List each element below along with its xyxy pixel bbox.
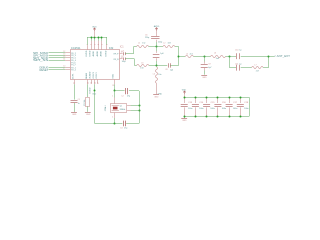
svg-text:1: 1 — [87, 44, 89, 45]
svg-text:L7: L7 — [254, 64, 256, 66]
wire RF_P to riser — [125, 47, 133, 54]
junction bank bottom C14 — [195, 116, 197, 118]
IC pin GUARD (bottom stub) — [89, 71, 93, 93]
wire net RESET — [49, 69, 66, 71]
net label XOSC_Q2 — [92, 94, 96, 96]
svg-text:AVDD: AVDD — [92, 50, 95, 56]
junction RF output node — [178, 56, 180, 58]
svg-text:L2: L2 — [163, 43, 165, 45]
svg-text:SPI_SS: SPI_SS — [33, 59, 49, 62]
svg-text:100n: 100n — [199, 108, 203, 110]
wire L1 to node A — [149, 46, 157, 48]
supply VDD (bank) — [182, 90, 187, 98]
wire node D drop — [230, 56, 237, 67]
wire combiner riser — [178, 47, 180, 66]
capacitor C11 (antenna bottom) — [235, 64, 242, 71]
junction case pin lower — [139, 110, 141, 112]
junction bus x=98.2 — [98, 37, 100, 39]
IC pin P1_7 (left, unconnected) — [71, 65, 75, 67]
svg-text:Q1: Q1 — [120, 105, 123, 107]
svg-text:21: 21 — [74, 82, 76, 84]
svg-text:C3: C3 — [120, 128, 122, 130]
supply VDD (above IC) — [92, 27, 97, 38]
svg-text:2: 2 — [112, 116, 113, 118]
wire net SPI_MISO — [49, 52, 66, 54]
svg-text:5: 5 — [102, 44, 104, 45]
svg-text:VDD: VDD — [92, 27, 97, 29]
wire bus drop x=94.6 — [94, 37, 96, 41]
svg-text:RF_N: RF_N — [114, 59, 120, 61]
wire node C down to C9 — [204, 56, 206, 64]
svg-text:XOSC2: XOSC2 — [93, 71, 95, 79]
wire RBIAS — [87, 84, 89, 97]
crystal Q1 26MHz — [104, 104, 127, 113]
IC U1 value label CC2511 — [71, 46, 81, 50]
svg-text:GND: GND — [182, 120, 187, 122]
wire bus drop x=91.0 — [91, 37, 93, 41]
junction bank bottom C13 — [184, 116, 186, 118]
junction bus x=91.0 — [91, 37, 93, 39]
net label SPI_SCK — [33, 57, 49, 60]
capacitor C10 (antenna top) — [235, 50, 242, 60]
wire to capacitor C3 — [114, 123, 122, 125]
svg-text:100n: 100n — [244, 108, 248, 110]
junction node A — [156, 46, 158, 48]
svg-text:6: 6 — [107, 44, 109, 45]
svg-text:DVDD: DVDD — [86, 50, 88, 56]
svg-text:100n: 100n — [222, 108, 226, 110]
wire VDD bus — [87, 37, 107, 39]
wire RF_N to drop — [125, 59, 134, 66]
junction bus x=94.6 — [94, 37, 96, 39]
junction case pin upper — [139, 105, 141, 107]
wire L5 to node C — [194, 56, 205, 58]
svg-text:1p0: 1p0 — [170, 69, 173, 71]
svg-text:100n: 100n — [210, 108, 214, 110]
IC pin AVDD (top) — [92, 41, 96, 57]
svg-text:P1_7: P1_7 — [71, 65, 75, 67]
ground (below C1) — [71, 113, 77, 117]
svg-text:GND: GND — [86, 114, 91, 116]
svg-text:2n7: 2n7 — [256, 71, 259, 73]
capacitor C2 27p — [121, 88, 130, 98]
junction node C — [204, 56, 206, 58]
net label SPI_SS — [33, 59, 49, 62]
ground (below L4) — [153, 95, 159, 99]
svg-text:CC2511: CC2511 — [71, 46, 81, 50]
inductor L3 1n8 — [137, 63, 149, 70]
junction crystal bottom / C3 — [114, 123, 116, 125]
net label SPI_MISO — [33, 52, 48, 55]
junction node B — [156, 65, 158, 67]
inductor L1 1n2 — [137, 43, 149, 48]
wire C11 to L7 — [241, 67, 252, 69]
IC U1 package label — [109, 47, 114, 50]
net label RESET — [40, 69, 49, 72]
svg-text:C9: C9 — [208, 64, 210, 66]
svg-text:VDD: VDD — [182, 90, 187, 92]
svg-text:AVDD: AVDD — [154, 25, 160, 28]
wire node D to C10 — [230, 56, 237, 58]
resistor R1 56k — [84, 98, 90, 112]
svg-text:27p: 27p — [124, 128, 127, 130]
junction bank top C18 — [240, 97, 242, 99]
wire L7 up to antenna node — [263, 56, 268, 67]
svg-text:1u: 1u — [78, 103, 80, 105]
IC pin P2_1 (left) — [63, 66, 76, 70]
IC pin P0_4 (left) — [63, 58, 76, 62]
wire net DEBUG — [49, 67, 66, 69]
svg-text:2: 2 — [91, 44, 93, 45]
svg-text:GND: GND — [154, 97, 159, 99]
svg-text:27p: 27p — [127, 96, 130, 98]
wire node A right — [156, 46, 163, 48]
IC U1 CC2511 body — [71, 50, 120, 80]
svg-text:1p: 1p — [239, 50, 241, 52]
wire VDD rail (bank top) — [184, 97, 249, 99]
svg-text:L6: L6 — [214, 53, 216, 55]
wire L3 to node B — [149, 65, 156, 67]
junction XTAL / C2 — [114, 90, 116, 92]
svg-text:10n: 10n — [158, 74, 161, 76]
inductor L5 2n2 — [185, 53, 193, 57]
capacitor C7 1p8 (bridge) — [153, 53, 164, 58]
wire bus drop x=101.8 — [101, 37, 103, 41]
junction bank bottom C18 — [240, 116, 242, 118]
wire output to L5 — [179, 56, 186, 58]
wire L6 to node D — [225, 56, 229, 58]
svg-text:100n: 100n — [233, 108, 237, 110]
svg-text:3: 3 — [94, 44, 96, 45]
svg-text:3n3: 3n3 — [216, 58, 219, 60]
svg-text:2n2: 2n2 — [190, 53, 193, 55]
junction node D — [229, 56, 231, 58]
svg-text:1p8: 1p8 — [160, 53, 163, 55]
svg-text:AVDD: AVDD — [96, 50, 99, 56]
wire bank right end — [249, 97, 251, 116]
capacitor C3 27p — [120, 121, 127, 130]
inductor L4 10n (shunt to ground) — [153, 67, 163, 96]
IC pin AVDD (top) — [96, 41, 100, 57]
capacitor C8 (balun out) — [165, 63, 173, 71]
capacitor C16 100n — [214, 97, 226, 116]
svg-text:F32: F32 — [109, 47, 114, 50]
wire bus drop x=87.5 — [87, 37, 89, 45]
svg-text:26MHz: 26MHz — [120, 109, 126, 111]
wire DCOUPL — [74, 84, 76, 99]
IC pin XTAL (bottom) — [112, 73, 115, 87]
svg-text:C4: C4 — [122, 51, 124, 53]
wire L2 to combiner riser — [175, 46, 179, 48]
svg-text:RF_P: RF_P — [114, 54, 120, 56]
IC pin AVDD (top) — [99, 41, 103, 57]
svg-text:C1: C1 — [78, 99, 80, 101]
svg-text:220p: 220p — [145, 37, 149, 39]
svg-text:C8: C8 — [165, 69, 167, 71]
junction bus x=101.8 — [101, 37, 103, 39]
capacitor C17 100n — [226, 97, 238, 116]
wire bus drop x=106.9 — [106, 37, 108, 45]
svg-text:4: 4 — [98, 44, 100, 45]
svg-text:RBIAS: RBIAS — [85, 72, 88, 79]
svg-text:DGND: DGND — [90, 87, 92, 93]
svg-text:C6: C6 — [145, 35, 147, 37]
wire XTAL to crystal top — [112, 91, 114, 104]
wire bus drop x=98.2 — [98, 37, 100, 41]
svg-text:100p: 100p — [122, 61, 126, 63]
junction antenna node — [268, 56, 270, 58]
IC pin DCOUPL (bottom) — [72, 73, 75, 85]
wire crystal ground net (right vertical) — [139, 91, 141, 124]
junction bank top C17 — [229, 97, 231, 99]
wire net SPI_SCK — [49, 57, 66, 59]
IC pin P0_2 (left) — [63, 51, 76, 55]
svg-text:26: 26 — [112, 85, 114, 87]
wire C6 up to AVDD — [156, 31, 158, 37]
IC U1 name label IC1 — [120, 46, 125, 49]
svg-text:GUARD: GUARD — [89, 71, 92, 79]
svg-text:ANT_EXT: ANT_EXT — [277, 54, 291, 58]
svg-text:AVDD: AVDD — [99, 50, 102, 56]
junction bank top C13 — [184, 97, 186, 99]
svg-text:RESET: RESET — [40, 69, 49, 72]
junction bank bottom C15 — [206, 116, 208, 118]
net label ANTENNA — [274, 54, 290, 58]
wire C10 to antenna node — [241, 56, 269, 58]
wire net SPI_SS — [49, 60, 66, 62]
crystal Q1 bottom pin — [112, 113, 114, 124]
svg-text:C5: C5 — [122, 56, 124, 58]
crystal Q1 case pin lower — [127, 110, 139, 112]
junction bank top C14 — [195, 97, 197, 99]
capacitor C9 4p7 (shunt) — [201, 64, 212, 70]
IC pin DVDD (top) — [90, 41, 93, 57]
wire node B right — [156, 65, 167, 67]
svg-text:9: 9 — [63, 68, 64, 70]
svg-text:IC1: IC1 — [120, 46, 125, 49]
svg-text:100n: 100n — [188, 108, 192, 110]
wire XOSC_Q2 to crystal bottom — [95, 91, 115, 124]
wire GND rail (bank bottom) — [184, 116, 249, 118]
inductor L6 3n3 — [211, 53, 226, 61]
wire to antenna — [269, 56, 275, 58]
net label SPI_MOSI — [33, 54, 49, 57]
IC pin XOSC_Q1 (bottom stub) — [96, 71, 99, 84]
wire node A down to C7 — [156, 47, 158, 53]
IC pin P0_5 (left) — [63, 56, 76, 60]
wire node C to L6 — [204, 56, 210, 58]
ground (below C9) — [201, 76, 207, 79]
svg-text:1p: 1p — [239, 64, 241, 66]
svg-text:L5: L5 — [186, 53, 188, 55]
wire C3 to right net — [126, 123, 139, 125]
wire C9 to ground — [204, 67, 206, 75]
wire XOSC_Q2 down — [94, 84, 96, 91]
inductor L2 1n8 — [163, 43, 175, 48]
svg-text:28: 28 — [94, 82, 96, 84]
svg-text:L1: L1 — [138, 43, 140, 45]
capacitor C6 220p (AVDD decouple) — [145, 35, 162, 44]
svg-text:27: 27 — [98, 82, 100, 84]
capacitor C14 100n — [192, 97, 204, 116]
svg-text:DVDD: DVDD — [106, 50, 108, 56]
svg-text:L3: L3 — [141, 63, 143, 65]
wire C2 to right net — [129, 90, 139, 92]
IC pin RF_P (right) — [114, 52, 123, 56]
svg-text:R1 56k: R1 56k — [84, 100, 86, 106]
capacitor C4 (RF_P series) — [122, 51, 126, 56]
svg-text:29: 29 — [91, 82, 93, 84]
IC pin P1_6 (left, unconnected) — [71, 62, 75, 64]
wire XTAL down — [114, 84, 116, 91]
svg-text:4p7: 4p7 — [208, 67, 211, 69]
wire node A up to C6 — [156, 40, 158, 47]
wire to capacitor C2 — [114, 90, 124, 92]
capacitor C13 100n — [181, 97, 193, 116]
wire RF top rail left — [134, 46, 137, 48]
capacitor C5 (RF_N series) — [122, 56, 126, 63]
svg-text:14: 14 — [63, 58, 65, 60]
ground (bank) — [181, 116, 187, 122]
IC pin DVDD (top) — [86, 44, 89, 56]
svg-text:XTAL1: XTAL1 — [104, 104, 107, 111]
svg-text:1n2: 1n2 — [142, 43, 145, 45]
IC pin RBIAS (bottom) — [85, 72, 89, 84]
svg-text:XOSC1: XOSC1 — [96, 71, 98, 79]
supply AVDD — [154, 25, 160, 30]
net label DEBUG — [40, 66, 49, 69]
capacitor C1 1u — [71, 99, 81, 112]
IC pin RF_N (right) — [114, 57, 123, 61]
capacitor C18 100n — [237, 97, 249, 116]
IC pin XOSC_Q2 (bottom) — [93, 71, 96, 84]
svg-text:L4: L4 — [153, 74, 155, 76]
IC pin P0_3 (left) — [63, 54, 76, 58]
svg-text:DCPL: DCPL — [72, 73, 74, 79]
svg-text:C10: C10 — [235, 50, 238, 52]
capacitor C15 100n — [203, 97, 215, 116]
svg-text:C2: C2 — [121, 96, 123, 98]
wire C7 down to node B — [156, 58, 158, 65]
svg-text:GND: GND — [72, 114, 77, 116]
svg-text:1n8: 1n8 — [140, 68, 143, 70]
wire C8 to combiner riser — [170, 65, 179, 67]
IC pin P2_2 (left) — [63, 68, 76, 72]
junction bank top C16 — [217, 97, 219, 99]
svg-text:C11: C11 — [235, 64, 238, 66]
svg-text:1: 1 — [112, 96, 113, 98]
wire net SPI_MOSI — [49, 55, 66, 57]
junction bank bottom C17 — [229, 116, 231, 118]
svg-text:30: 30 — [88, 82, 90, 84]
IC pin DVDD (top) — [106, 44, 109, 56]
wire RF bottom rail left — [134, 65, 136, 67]
svg-text:220p: 220p — [158, 41, 162, 43]
junction bank bottom C16 — [217, 116, 219, 118]
svg-text:1n8: 1n8 — [168, 43, 171, 45]
junction XOSC_Q2 — [94, 90, 96, 92]
svg-text:DVDD: DVDD — [90, 50, 92, 56]
ground (below R1) — [85, 113, 91, 117]
junction bank top C15 — [206, 97, 208, 99]
inductor L7 2n7 — [252, 64, 263, 72]
svg-text:GND: GND — [202, 77, 207, 79]
crystal Q1 case pin upper — [127, 105, 139, 107]
